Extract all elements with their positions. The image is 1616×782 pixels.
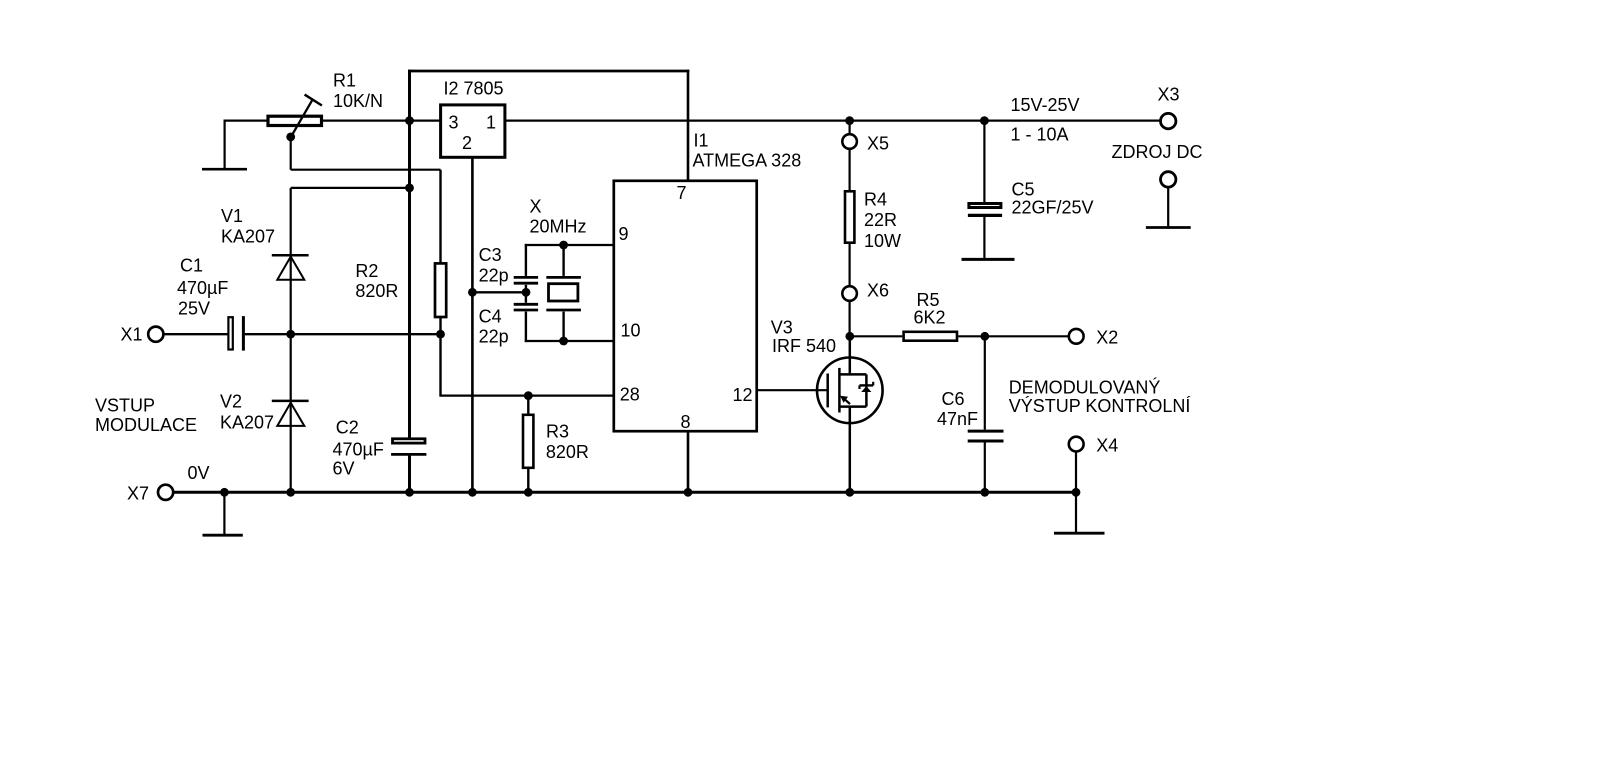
svg-text:15V-25V: 15V-25V (1011, 95, 1080, 115)
svg-text:R1: R1 (333, 71, 356, 91)
svg-text:X1: X1 (121, 325, 143, 345)
svg-text:I2 7805: I2 7805 (444, 79, 504, 99)
svg-text:IRF 540: IRF 540 (772, 336, 836, 356)
svg-text:C1: C1 (180, 256, 203, 276)
svg-text:1: 1 (486, 113, 496, 133)
svg-text:X5: X5 (867, 133, 889, 153)
svg-text:28: 28 (620, 384, 640, 404)
svg-text:25V: 25V (178, 298, 210, 318)
svg-text:R4: R4 (864, 189, 887, 209)
svg-text:V1: V1 (221, 206, 243, 226)
svg-text:10K/N: 10K/N (333, 91, 383, 111)
svg-text:KA207: KA207 (220, 413, 274, 433)
svg-text:470µF: 470µF (333, 440, 384, 460)
svg-text:820R: 820R (355, 281, 398, 301)
svg-text:V3: V3 (771, 317, 793, 337)
svg-text:DEMODULOVANÝ: DEMODULOVANÝ (1009, 378, 1161, 398)
svg-text:7: 7 (677, 183, 687, 203)
svg-text:22p: 22p (479, 265, 509, 285)
svg-text:X4: X4 (1096, 435, 1118, 455)
svg-text:820R: 820R (546, 442, 589, 462)
svg-text:20MHz: 20MHz (530, 216, 587, 236)
svg-text:3: 3 (449, 113, 459, 133)
svg-text:22GF/25V: 22GF/25V (1012, 197, 1094, 217)
svg-text:6V: 6V (333, 459, 355, 479)
svg-text:C2: C2 (336, 418, 359, 438)
svg-text:X3: X3 (1158, 85, 1180, 105)
svg-text:22p: 22p (479, 327, 509, 347)
svg-text:MODULACE: MODULACE (95, 415, 197, 435)
svg-text:VSTUP: VSTUP (95, 396, 155, 416)
svg-text:12: 12 (733, 385, 753, 405)
svg-text:22R: 22R (864, 210, 897, 230)
svg-text:X7: X7 (127, 484, 149, 504)
svg-text:8: 8 (681, 412, 691, 432)
svg-text:C4: C4 (479, 307, 502, 327)
svg-text:ZDROJ DC: ZDROJ DC (1112, 142, 1203, 162)
svg-text:6K2: 6K2 (914, 308, 946, 328)
svg-text:V2: V2 (220, 392, 242, 412)
svg-text:470µF: 470µF (177, 278, 228, 298)
svg-text:VÝSTUP KONTROLNÍ: VÝSTUP KONTROLNÍ (1009, 396, 1191, 416)
svg-text:X6: X6 (867, 280, 889, 300)
svg-text:10: 10 (621, 321, 641, 341)
svg-text:KA207: KA207 (221, 227, 275, 247)
svg-text:X2: X2 (1096, 327, 1118, 347)
svg-text:10W: 10W (864, 231, 901, 251)
svg-text:2: 2 (462, 133, 472, 153)
svg-text:C3: C3 (479, 245, 502, 265)
svg-text:47nF: 47nF (937, 409, 978, 429)
svg-text:C6: C6 (942, 389, 965, 409)
svg-text:0V: 0V (188, 463, 210, 483)
svg-text:ATMEGA 328: ATMEGA 328 (693, 151, 802, 171)
svg-text:1 - 10A: 1 - 10A (1011, 124, 1069, 144)
svg-text:R3: R3 (546, 422, 569, 442)
svg-text:C5: C5 (1012, 179, 1035, 199)
svg-text:9: 9 (619, 224, 629, 244)
svg-text:X: X (530, 196, 542, 216)
svg-text:I1: I1 (694, 131, 709, 151)
svg-text:R2: R2 (355, 261, 378, 281)
